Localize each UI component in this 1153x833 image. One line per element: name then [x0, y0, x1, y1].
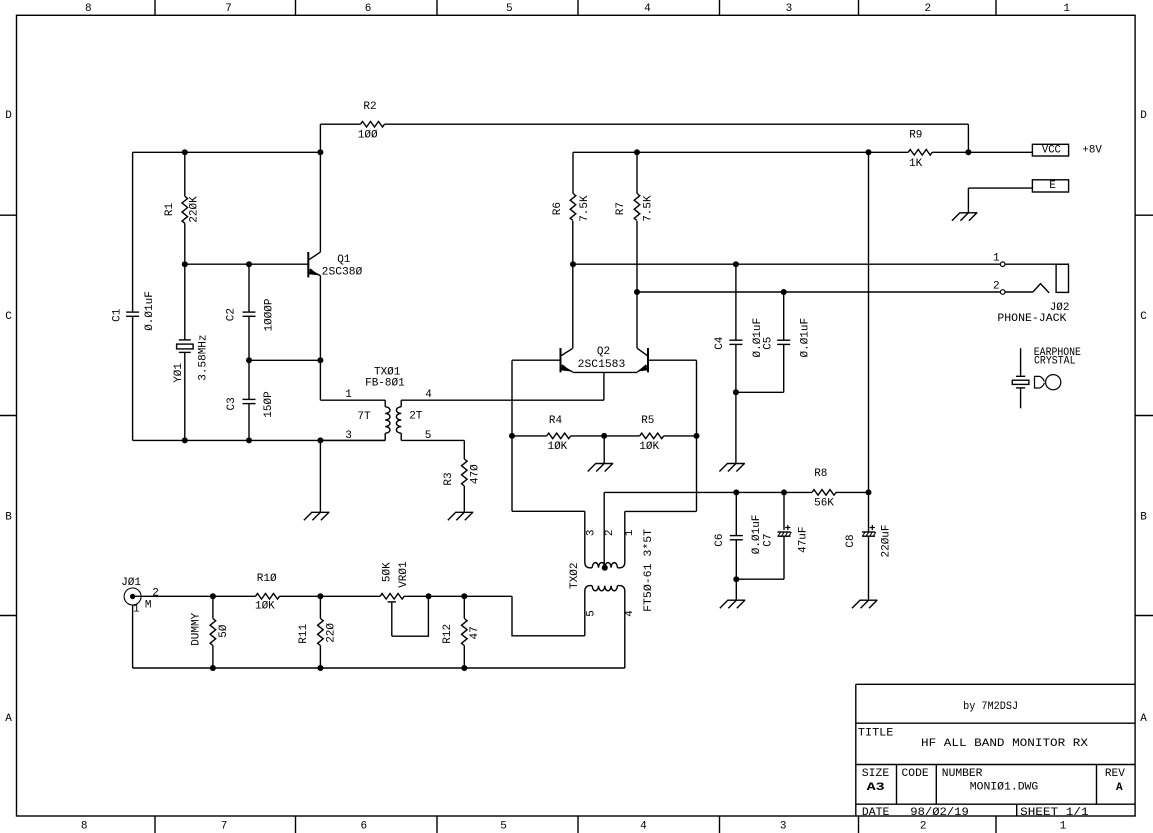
wire TX01 pin1 [320, 399, 385, 401]
svg-text:Q2: Q2 [597, 346, 610, 358]
svg-text:PHONE-JACK: PHONE-JACK [997, 313, 1067, 325]
ground E [959, 212, 977, 214]
capacitor C2 [243, 311, 256, 313]
wire bottom-left rail [133, 439, 386, 441]
wire R12 lower lead [463, 646, 465, 669]
title block frame [856, 683, 1135, 685]
wire C6 ground stem [735, 579, 737, 600]
junction R12 bottom [461, 665, 467, 671]
label TX02 [569, 562, 581, 588]
svg-text:1ØK: 1ØK [255, 601, 275, 613]
connector J02 body [1056, 264, 1068, 292]
svg-text:6: 6 [365, 3, 372, 15]
ground R4 R5 [595, 463, 613, 465]
wire C2 upper lead [248, 264, 250, 312]
svg-text:4: 4 [624, 610, 636, 617]
label C7 value [798, 526, 810, 552]
svg-text:5Ø: 5Ø [218, 624, 230, 638]
svg-text:5: 5 [586, 610, 598, 617]
wire bottom ground rail [133, 667, 625, 669]
wire R2 right lead [385, 123, 969, 125]
svg-text:98/Ø2/19: 98/Ø2/19 [910, 807, 969, 819]
svg-text:15ØP: 15ØP [263, 391, 275, 418]
label R7 [615, 202, 627, 215]
label C1 value [144, 291, 156, 331]
svg-text:R8: R8 [814, 468, 827, 480]
junction C4 tap [733, 261, 739, 267]
label C3 value [263, 391, 275, 418]
svg-text:Ø.Ø1uF: Ø.Ø1uF [751, 515, 763, 555]
svg-text:VCC: VCC [1042, 144, 1061, 156]
junction left rail R1 [182, 149, 188, 155]
wire J02 pin2 tail [1005, 291, 1033, 293]
label C6 [714, 533, 726, 546]
wire R9 to VCC box [932, 151, 1032, 153]
svg-text:47uF: 47uF [798, 526, 810, 552]
capacitor C5 [777, 339, 790, 341]
capacitor C7 [778, 531, 791, 533]
label TX02 pin5 [586, 610, 598, 617]
svg-text:Ø.Ø1uF: Ø.Ø1uF [144, 291, 156, 331]
junction C6 C7 join [733, 576, 739, 582]
junction VCC drop [866, 149, 872, 155]
wire Q2 left base [512, 359, 561, 361]
label C2 value [264, 298, 276, 331]
wire DUMMY upper lead [212, 596, 214, 618]
svg-text:1: 1 [993, 253, 1000, 265]
label R3 [443, 472, 455, 485]
junction Y01 bottom [182, 437, 188, 443]
svg-text:1: 1 [1063, 3, 1070, 15]
ground C4 C5 [727, 463, 745, 465]
label R12 value [469, 626, 481, 639]
svg-text:3: 3 [586, 529, 598, 536]
svg-text:CRYSTAL: CRYSTAL [1034, 356, 1076, 368]
wire R3 lower lead [463, 486, 465, 512]
svg-text:2SC38Ø: 2SC38Ø [322, 266, 363, 278]
svg-text:C: C [5, 311, 12, 323]
label C3 [226, 397, 238, 410]
terminal E box [1032, 180, 1068, 192]
label C7 [763, 533, 775, 546]
wire C5 lower lead [783, 344, 785, 392]
label C5 [763, 337, 775, 350]
svg-text:2: 2 [152, 588, 159, 600]
label VR01 value [381, 562, 393, 582]
label R11 value [325, 623, 337, 643]
svg-text:6: 6 [360, 821, 367, 833]
svg-text:7: 7 [221, 821, 228, 833]
svg-text:56K: 56K [814, 497, 834, 509]
junction R5 right [694, 433, 700, 439]
junction R11 bottom [317, 665, 323, 671]
svg-text:R12: R12 [442, 624, 454, 644]
wire Q1 collector [319, 124, 321, 252]
svg-text:7.5K: 7.5K [579, 195, 591, 222]
svg-text:C1: C1 [112, 308, 124, 322]
zone ticks [154, 0, 156, 15]
svg-text:JØ2: JØ2 [1050, 302, 1070, 314]
transistor Q1 [307, 252, 309, 277]
wire R10 right lead [280, 595, 381, 597]
label R1 [164, 203, 176, 217]
wire TX02 pin1 route [625, 510, 697, 512]
svg-text:SIZE: SIZE [862, 768, 890, 780]
wire C3 lower lead [248, 404, 250, 441]
junction R8 VCC drop [866, 489, 872, 495]
capacitor C3 [243, 398, 256, 400]
junction R11 top [317, 593, 323, 599]
svg-text:C2: C2 [226, 308, 238, 321]
resistor R2 [361, 121, 385, 127]
junction C4 C5 join [733, 389, 739, 395]
node J02 pin1 circle [1000, 262, 1005, 267]
svg-text:2SC1583: 2SC1583 [578, 359, 626, 371]
junction Q1 collector rail [317, 149, 323, 155]
svg-text:5ØK: 5ØK [381, 562, 393, 582]
label R6 [552, 202, 564, 215]
ground C8 [860, 599, 878, 601]
svg-text:E: E [1049, 180, 1056, 192]
resistor R11 [318, 619, 324, 646]
capacitor C1 [126, 311, 139, 313]
svg-text:C6: C6 [714, 533, 726, 546]
svg-text:C3: C3 [226, 397, 238, 410]
junction C6 tap [733, 489, 739, 495]
junction emitter tap [317, 357, 323, 363]
crystal earphone [1016, 375, 1025, 377]
svg-text:R4: R4 [549, 415, 563, 427]
svg-text:A: A [1140, 713, 1147, 725]
svg-text:A: A [1116, 782, 1123, 794]
junction C7 tap [781, 489, 787, 495]
label VR01 [398, 561, 410, 588]
svg-text:NUMBER: NUMBER [942, 768, 983, 780]
label R6 value [579, 195, 591, 222]
svg-text:CODE: CODE [902, 768, 930, 780]
svg-text:R2: R2 [363, 101, 376, 113]
wire Q2 right collector [636, 221, 638, 348]
svg-text:1ØK: 1ØK [639, 441, 659, 453]
wire R2 left lead [320, 123, 360, 125]
wire R7 upper lead [636, 152, 638, 193]
junction left collector out [570, 261, 576, 267]
label TX02 pin3 [586, 529, 598, 536]
svg-text:2: 2 [604, 529, 616, 536]
wire R5 right lead [664, 435, 697, 437]
junction TX02 center tap [602, 565, 608, 571]
svg-text:1: 1 [345, 389, 352, 401]
wire earphone lower lead [1020, 388, 1022, 408]
terminal VCC box [1032, 144, 1068, 156]
label TX02 pin1 [624, 529, 636, 536]
junction C2 top node [246, 261, 252, 267]
capacitor C8 [862, 531, 875, 533]
wire collector to J02 pin1 [573, 263, 1000, 265]
svg-text:R9: R9 [909, 130, 922, 142]
wire R5 left lead [604, 435, 640, 437]
svg-text:SHEET 1/1: SHEET 1/1 [1020, 807, 1089, 819]
wire C7 lower lead [783, 536, 785, 579]
svg-text:3: 3 [780, 821, 787, 833]
svg-text:22ØuF: 22ØuF [881, 524, 893, 557]
label DUMMY [191, 612, 203, 645]
svg-text:R11: R11 [298, 624, 310, 644]
svg-text:4: 4 [644, 3, 651, 15]
svg-text:TXØ1: TXØ1 [374, 367, 401, 379]
svg-text:3.58MHz: 3.58MHz [197, 334, 209, 380]
wire C6 lower lead [735, 540, 737, 579]
resistor R3 [462, 459, 468, 486]
label R11 [298, 624, 310, 644]
junction R4 left [509, 433, 515, 439]
svg-text:VRØ1: VRØ1 [398, 561, 410, 588]
svg-text:FB-8Ø1: FB-8Ø1 [365, 378, 405, 390]
svg-text:5: 5 [506, 3, 513, 15]
wire C7 upper lead [783, 492, 785, 530]
ground C6 C7 [727, 599, 745, 601]
wire C1 upper lead [132, 152, 134, 312]
label Y01 [173, 363, 185, 383]
wire VCC rail [573, 151, 908, 153]
label R7 value [642, 195, 654, 222]
label R12 [442, 624, 454, 644]
label C8 [845, 534, 857, 547]
svg-text:7.5K: 7.5K [642, 195, 654, 222]
svg-text:TXØ2: TXØ2 [569, 562, 581, 588]
wire Y01 upper lead [184, 264, 186, 340]
transformer TX02 primary [585, 511, 592, 568]
svg-text:TITLE: TITLE [858, 727, 894, 739]
svg-text:D: D [5, 110, 12, 122]
svg-text:B: B [5, 511, 12, 523]
ground R3 [455, 511, 473, 513]
wire R8 right lead [836, 491, 869, 493]
wire E lead [968, 187, 1032, 189]
wire C5 upper lead [783, 292, 785, 340]
wire R11 upper lead [319, 596, 321, 618]
svg-text:MONIØ1.DWG: MONIØ1.DWG [970, 781, 1039, 793]
svg-text:+8V: +8V [1082, 144, 1102, 156]
wire R3 upper lead [463, 440, 465, 459]
label R3 value [470, 464, 482, 484]
wire audio drop to TX02 [512, 596, 585, 636]
svg-text:Q1: Q1 [337, 254, 351, 266]
wire C4 lower lead [735, 344, 737, 392]
svg-text:HF ALL BAND MONITOR RX: HF ALL BAND MONITOR RX [921, 738, 1088, 750]
svg-text:4: 4 [425, 389, 432, 401]
transistor Q2 right half [647, 348, 649, 372]
junction right collector out [634, 289, 640, 295]
svg-text:R1Ø: R1Ø [257, 573, 277, 585]
svg-text:2: 2 [924, 3, 931, 15]
svg-text:1K: 1K [909, 158, 923, 170]
resistor R7 [634, 194, 640, 221]
label C4 [714, 336, 726, 350]
capacitor C4 [729, 339, 742, 341]
svg-text:1ØØØP: 1ØØØP [264, 298, 276, 331]
wire emitter tap [249, 359, 320, 361]
transformer TX01 primary [384, 400, 386, 407]
svg-text:47Ø: 47Ø [470, 464, 482, 484]
svg-text:2: 2 [920, 821, 927, 833]
svg-text:22Ø: 22Ø [325, 623, 337, 643]
transistor Q2 left half [560, 348, 562, 372]
svg-text:3: 3 [786, 3, 793, 15]
svg-text:JØ1: JØ1 [121, 577, 141, 589]
junction R4 R5 center [601, 433, 607, 439]
junction C3 bottom [246, 437, 252, 443]
svg-text:B: B [1140, 511, 1147, 523]
svg-text:A3: A3 [867, 782, 886, 794]
resistor R10 [256, 594, 280, 600]
wire R1 upper lead [184, 152, 186, 196]
wire TX01 ground stem [319, 440, 321, 512]
wire collector to J02 pin2 [637, 291, 1000, 293]
label C2 [226, 308, 238, 321]
svg-text:1ØØ: 1ØØ [358, 129, 378, 141]
label TX02 pin2 [604, 529, 616, 536]
svg-text:R3: R3 [443, 472, 455, 485]
svg-text:C4: C4 [714, 336, 726, 350]
junction R12 top [461, 593, 467, 599]
wire Q1 base [185, 263, 308, 265]
wire VR01 to R12 [404, 595, 512, 597]
wire TX02 tap riser [603, 492, 605, 567]
resistor R5 [640, 433, 664, 439]
resistor R12 [462, 619, 468, 646]
junction C5 tap [781, 289, 787, 295]
svg-text:C7: C7 [763, 533, 775, 546]
wire top-left rail [133, 151, 321, 153]
connector J02 tip spring [1033, 284, 1049, 293]
potentiometer VR01 [380, 594, 404, 600]
wire C4 upper lead [735, 264, 737, 340]
wire E ground stem [967, 188, 969, 213]
wire J01 ground lead [132, 605, 134, 668]
svg-text:1: 1 [133, 604, 140, 616]
svg-text:1: 1 [624, 529, 636, 536]
wire DUMMY lower lead [212, 646, 214, 669]
junction TX01 pin3 node [317, 437, 323, 443]
junction VR01 return [426, 593, 432, 599]
junction DUMMY top [210, 593, 216, 599]
svg-text:Ø.Ø1uF: Ø.Ø1uF [800, 318, 812, 358]
connector J01 [124, 588, 141, 605]
wire C4 ground stem [735, 392, 737, 463]
label C1 [112, 308, 124, 322]
svg-text:8: 8 [81, 821, 88, 833]
label DUMMY value [218, 624, 230, 638]
wire Q2 emitter riser [603, 372, 605, 400]
label R1 value [189, 196, 201, 223]
wire C2 lower lead [248, 316, 250, 360]
wire VCC drop [868, 152, 870, 532]
ground TX01 [311, 511, 329, 513]
capacitor C6 [730, 535, 743, 537]
resistor R8 [812, 490, 836, 496]
svg-text:M: M [145, 599, 152, 611]
svg-text:47: 47 [469, 626, 481, 639]
resistor R6 [570, 194, 576, 221]
svg-text:DUMMY: DUMMY [191, 612, 203, 645]
wire Q2 right base [648, 359, 697, 361]
wire C8 lower lead [868, 536, 870, 600]
svg-text:1ØK: 1ØK [547, 441, 567, 453]
icon earphone [1035, 376, 1045, 388]
svg-text:REV: REV [1105, 768, 1125, 780]
wire R6 upper lead [572, 152, 574, 193]
wire center ground stem [603, 436, 605, 464]
svg-text:by 7M2DSJ: by 7M2DSJ [963, 701, 1018, 713]
wire C1 lower lead [132, 316, 134, 440]
wire TX01 pin3 lead [320, 439, 385, 441]
wire tap to R8 [604, 491, 812, 493]
svg-text:C8: C8 [845, 534, 857, 547]
wire TX02 pin3 route [512, 510, 585, 512]
svg-text:7: 7 [225, 3, 232, 15]
wire R12 upper lead [463, 596, 465, 618]
wire J02 pin1 tail [1005, 263, 1069, 265]
svg-text:4: 4 [640, 821, 647, 833]
svg-text:C5: C5 [763, 337, 775, 350]
wire Q2 right base drop [696, 360, 698, 511]
label C5 value [800, 318, 812, 358]
junction R2 return [965, 149, 971, 155]
svg-text:D: D [1140, 110, 1147, 122]
node J02 pin2 circle [1000, 290, 1005, 295]
svg-text:8: 8 [85, 3, 92, 15]
svg-text:C: C [1140, 311, 1147, 323]
junction R7 rail [634, 149, 640, 155]
wire Q2 left base drop [511, 360, 513, 511]
svg-text:FT5Ø-61 3*5T: FT5Ø-61 3*5T [643, 528, 655, 611]
label TX02 part [643, 528, 655, 611]
svg-text:A: A [5, 713, 12, 725]
resistor R4 [547, 433, 571, 439]
wire Q1 emitter [319, 276, 321, 400]
svg-text:R1: R1 [164, 203, 176, 217]
wire VR01 wiper return [392, 596, 429, 636]
label C8 value [881, 524, 893, 557]
svg-text:2: 2 [993, 280, 1000, 292]
wire R1 lower lead [184, 223, 186, 264]
svg-text:2T: 2T [409, 411, 423, 423]
label C6 value [751, 515, 763, 555]
wire C3 upper lead [248, 360, 250, 399]
junction DUMMY bottom [210, 665, 216, 671]
junction R1 base node [182, 261, 188, 267]
wire J01 signal [133, 595, 256, 597]
svg-text:R7: R7 [615, 202, 627, 215]
wire C6 C7 join [736, 578, 784, 580]
svg-text:DATE: DATE [862, 807, 890, 819]
resistor R9 [908, 150, 932, 156]
label C4 value [752, 318, 764, 358]
resistor DUMMY [210, 619, 216, 646]
label TX02 pin4 [624, 610, 636, 617]
junction C2 bottom [246, 357, 252, 363]
resistor R1 [182, 196, 188, 223]
wire R4 left lead [512, 435, 547, 437]
wire Y01 lower lead [184, 352, 186, 440]
transformer TX01 secondary [400, 400, 402, 407]
wire C4 C5 join [736, 391, 784, 393]
svg-text:5: 5 [500, 821, 507, 833]
wire R4 right lead [571, 435, 605, 437]
svg-text:YØ1: YØ1 [173, 363, 185, 383]
svg-text:1: 1 [1060, 821, 1067, 833]
